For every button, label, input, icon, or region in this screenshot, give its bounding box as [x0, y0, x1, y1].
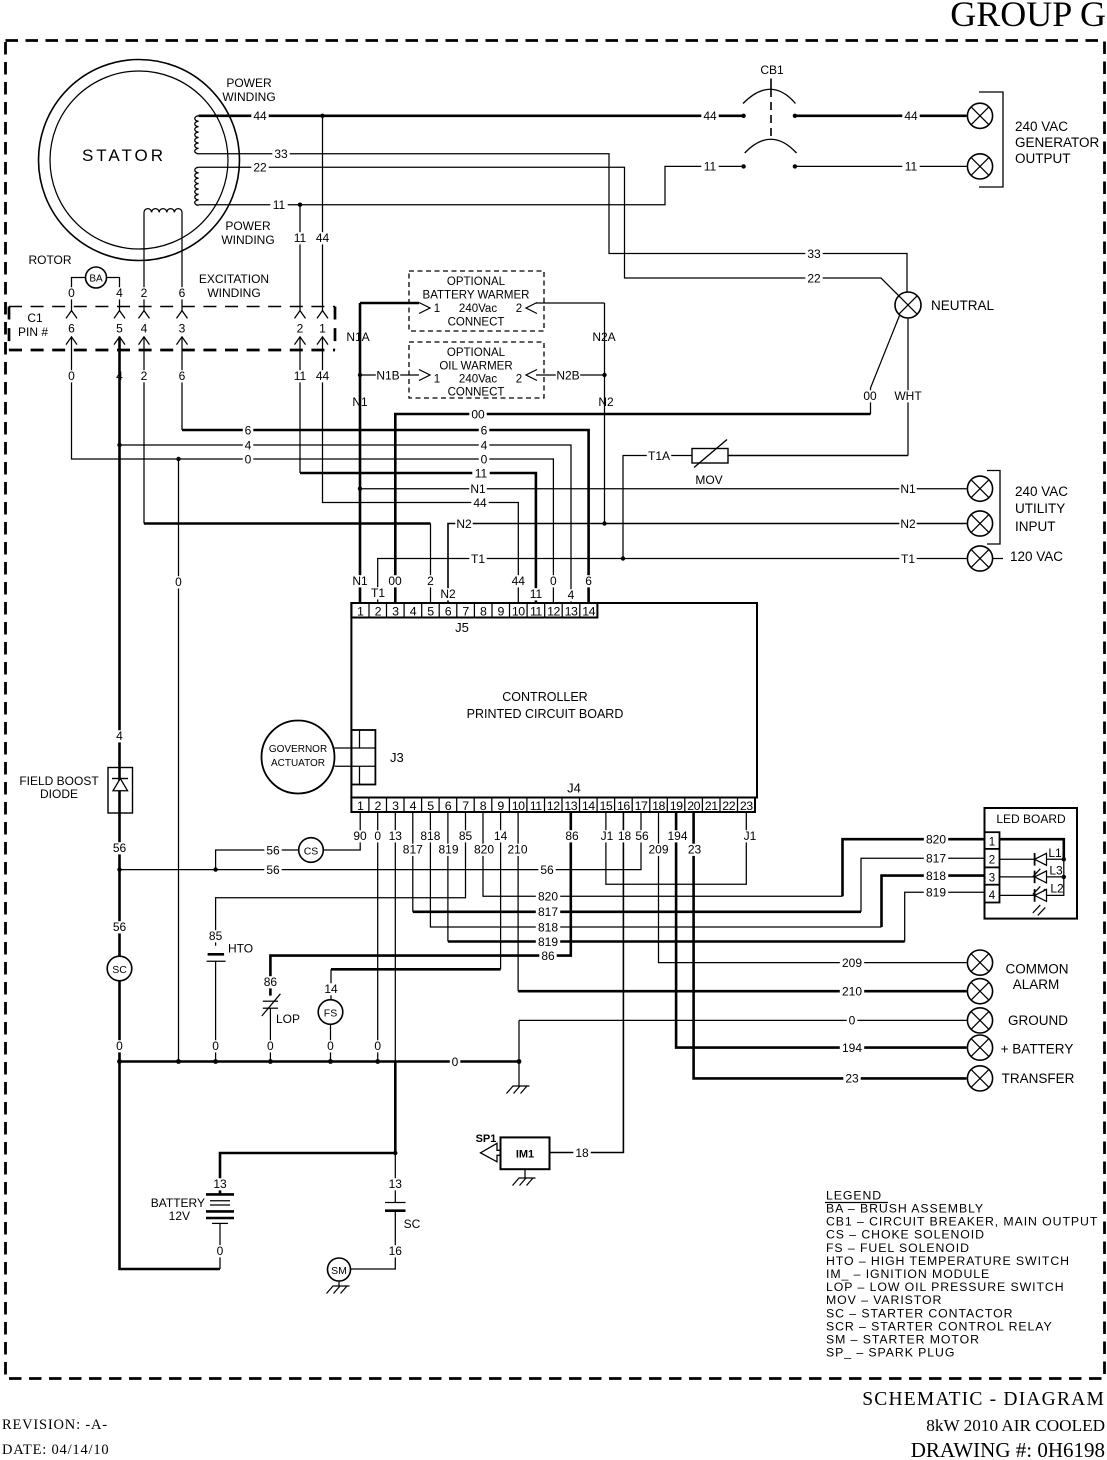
wire excitation right to C1 pin 3 — [181, 212, 183, 310]
svg-text:818: 818 — [538, 920, 558, 934]
svg-text:EXCITATION: EXCITATION — [199, 272, 269, 286]
varistor MOV — [692, 440, 728, 468]
svg-text:POWER: POWER — [225, 219, 271, 233]
wire 44 CB1 to generator output lamp — [795, 115, 967, 118]
label 4 above C1 pin 5 — [114, 287, 125, 299]
label 90 at J4 — [351, 830, 368, 842]
svg-text:210: 210 — [507, 843, 527, 857]
svg-text:12V: 12V — [169, 1209, 190, 1223]
wire 820 J4.8 to LED board pin 1 — [483, 812, 843, 896]
label 4 below C1 pin 5 — [114, 370, 125, 382]
svg-text:11: 11 — [273, 198, 286, 212]
wire 11 stator to CB1 — [199, 166, 744, 204]
svg-text:WINDING: WINDING — [207, 286, 260, 300]
svg-text:4: 4 — [410, 604, 417, 618]
terminal lamp 210 common alarm — [967, 979, 992, 1004]
svg-text:0: 0 — [452, 1055, 459, 1069]
label 33 — [805, 248, 822, 260]
svg-text:10: 10 — [512, 604, 525, 618]
svg-text:N1: N1 — [470, 482, 486, 496]
label N2 at J5 — [439, 588, 456, 600]
label T1 mid — [469, 553, 486, 565]
svg-text:DATE: 04/14/10: DATE: 04/14/10 — [2, 1442, 109, 1458]
field boost diode — [108, 768, 133, 814]
svg-text:11: 11 — [294, 369, 307, 383]
label 56 at J4 — [633, 830, 650, 842]
svg-text:BA – BRUSH ASSEMBLY: BA – BRUSH ASSEMBLY — [826, 1202, 984, 1216]
battery BATTERY 12V — [206, 1194, 234, 1223]
wire 00 neutral diagonal — [871, 316, 900, 415]
label 44 at J5 — [510, 575, 527, 587]
svg-text:14: 14 — [582, 604, 595, 618]
label 18 at J4 — [616, 830, 633, 842]
wire N1B to oil warmer — [360, 374, 419, 376]
svg-text:44: 44 — [703, 109, 717, 123]
svg-text:11: 11 — [530, 587, 543, 601]
svg-text:820: 820 — [538, 890, 558, 904]
wire 00 bus to J5 pin 3 — [395, 414, 870, 603]
label 0 below battery — [215, 1245, 226, 1257]
terminal lamp 0 ground — [967, 1008, 992, 1033]
CB1 pole1 terminal dots — [741, 114, 745, 118]
svg-text:56: 56 — [113, 920, 127, 934]
svg-text:8: 8 — [480, 799, 487, 813]
svg-text:N2: N2 — [456, 517, 472, 531]
wire battery negative 0 — [219, 1223, 221, 1269]
label 818 at LED board — [924, 870, 948, 882]
svg-text:44: 44 — [253, 109, 267, 123]
label 4 at J5 — [566, 589, 577, 601]
label 13 above battery — [211, 1178, 228, 1190]
label N1 — [351, 396, 368, 408]
svg-text:8: 8 — [480, 604, 487, 618]
svg-text:11: 11 — [905, 160, 918, 174]
svg-text:2: 2 — [427, 574, 434, 588]
svg-text:C1: C1 — [27, 311, 43, 325]
wire N1 to battery warmer — [360, 302, 419, 305]
svg-text:2: 2 — [516, 374, 522, 386]
label 33 near stator — [272, 148, 289, 160]
label 6 mid — [479, 425, 490, 437]
wire HTO to ground bus — [215, 961, 217, 1061]
svg-text:818: 818 — [926, 869, 946, 883]
power winding coil W1 (44-33) — [195, 116, 199, 154]
svg-text:22: 22 — [253, 161, 267, 175]
label 819 mid — [536, 936, 560, 948]
svg-text:6: 6 — [481, 423, 488, 437]
label 85 above HTO — [207, 930, 224, 942]
wire N1 vertical to J5 pin 1 — [359, 303, 362, 603]
wire excitation left to C1 pin 4 — [143, 212, 145, 310]
svg-text:13: 13 — [389, 829, 403, 843]
svg-text:0: 0 — [849, 1014, 856, 1028]
junction N2/N2B — [602, 373, 606, 377]
wire 209 J4.18 to common alarm lamp — [659, 812, 967, 963]
svg-text:21: 21 — [705, 799, 718, 813]
svg-text:13: 13 — [389, 1177, 403, 1191]
label 0 mid — [479, 454, 490, 466]
label 817 mid — [536, 906, 560, 918]
wire N1 bus to utility lamp — [360, 488, 967, 490]
svg-text:33: 33 — [274, 147, 288, 161]
svg-text:22: 22 — [722, 799, 735, 813]
svg-text:2: 2 — [989, 855, 995, 867]
svg-text:0: 0 — [68, 286, 75, 300]
svg-text:SP1: SP1 — [476, 1133, 497, 1145]
connector J5 — [351, 603, 597, 618]
svg-text:44: 44 — [904, 109, 918, 123]
svg-text:WINDING: WINDING — [221, 233, 274, 247]
spark plug SP1 arrow — [481, 1143, 501, 1162]
svg-text:0: 0 — [327, 1039, 334, 1053]
svg-text:1: 1 — [989, 837, 995, 849]
CB1 pole2 terminal dots — [741, 164, 745, 168]
svg-text:COMMON: COMMON — [1006, 962, 1069, 977]
svg-text:33: 33 — [807, 247, 821, 261]
label 6 below C1 pin 3 — [177, 370, 188, 382]
label 6 above C1 pin 3 — [177, 287, 188, 299]
svg-text:56: 56 — [266, 843, 280, 857]
svg-text:0: 0 — [481, 452, 488, 466]
label 194 — [840, 1042, 864, 1054]
ignition module IM1 — [501, 1137, 550, 1169]
svg-text:BA: BA — [89, 274, 103, 285]
terminal lamp 23 transfer — [967, 1066, 992, 1091]
svg-text:N2B: N2B — [556, 368, 579, 382]
optional battery warmer box — [409, 271, 544, 331]
svg-text:6: 6 — [245, 423, 252, 437]
wire ground bus 0 — [120, 1060, 520, 1063]
label 0 above ground bus at FS — [325, 1040, 336, 1052]
ground bus junction LOP — [268, 1059, 273, 1064]
wire left rail C1 pin5 to battery bottom — [120, 337, 221, 1269]
label 819 at J4 — [436, 844, 460, 856]
wire 11 drop to C1 pin 2 — [299, 205, 301, 311]
connector C1 dashed box — [9, 307, 335, 351]
svg-text:15: 15 — [600, 799, 613, 813]
svg-text:5: 5 — [427, 799, 434, 813]
junction anode rail L3 — [1062, 875, 1066, 879]
terminal lamp 44 generator output — [967, 103, 992, 128]
svg-text:4: 4 — [116, 729, 123, 743]
label 819 at LED board — [924, 887, 948, 899]
svg-text:4: 4 — [410, 799, 417, 813]
svg-text:6: 6 — [585, 574, 592, 588]
wire 44 stator to CB1 — [199, 115, 744, 118]
svg-text:0: 0 — [245, 452, 252, 466]
wire 44 bus to J5 pin 10 — [323, 337, 519, 603]
svg-text:11: 11 — [704, 160, 717, 174]
C1 pin 6 (wire 0) arrows and number — [66, 311, 77, 319]
svg-text:11: 11 — [530, 799, 542, 813]
svg-text:REVISION: -A-: REVISION: -A- — [2, 1417, 108, 1433]
label 00 below neutral — [861, 390, 878, 402]
svg-text:3: 3 — [392, 799, 399, 813]
LED L3 — [1000, 876, 1035, 878]
svg-text:90: 90 — [353, 829, 367, 843]
label 14 at J4 — [492, 830, 509, 842]
svg-text:SCR – STARTER CONTROL RELA: SCR – STARTER CONTROL RELAY — [826, 1319, 1053, 1333]
label 6 at J5 — [583, 575, 594, 587]
svg-text:1: 1 — [319, 322, 326, 336]
svg-text:817: 817 — [403, 843, 423, 857]
svg-text:209: 209 — [842, 956, 862, 970]
svg-text:819: 819 — [438, 843, 458, 857]
label T1 right — [899, 553, 916, 565]
svg-text:1: 1 — [357, 799, 364, 813]
svg-text:6: 6 — [445, 799, 452, 813]
label N2 — [597, 396, 614, 408]
svg-text:5: 5 — [116, 322, 123, 336]
label 11 at CB1 — [701, 161, 718, 173]
label 0 at J5 — [548, 575, 559, 587]
label 4 mid — [479, 440, 490, 452]
wire 4 bus to J5 pin 13 — [120, 445, 572, 603]
ground bus junction FS — [328, 1059, 333, 1064]
svg-text:817: 817 — [538, 905, 558, 919]
stator inner circle — [50, 71, 228, 249]
wire 18 J4.16 to IM1 — [550, 812, 624, 1153]
svg-text:N2: N2 — [900, 517, 916, 531]
label 00 on bus — [469, 409, 486, 421]
label 14 above FS — [322, 983, 339, 995]
label J1 at J4 — [598, 830, 615, 842]
ground bus junction left rail — [117, 1059, 122, 1064]
svg-text:0: 0 — [217, 1244, 224, 1258]
svg-text:00: 00 — [863, 389, 877, 403]
wire 0 rail — [178, 459, 180, 1062]
label 0 above C1 pin 6 — [66, 287, 77, 299]
junction N1/N1B — [358, 373, 362, 377]
svg-text:TRANSFER: TRANSFER — [1002, 1071, 1075, 1086]
svg-text:FS – FUEL SOLENOID: FS – FUEL SOLENOID — [826, 1241, 970, 1255]
svg-text:13: 13 — [564, 799, 577, 813]
svg-text:SC: SC — [112, 964, 127, 976]
svg-text:820: 820 — [474, 843, 494, 857]
label 6 left — [243, 425, 254, 437]
label 0 on ground bus — [450, 1056, 461, 1068]
label 11 above C1 pin 2 — [291, 232, 308, 244]
wire N2 bus to utility lamp — [448, 524, 967, 604]
svg-text:44: 44 — [512, 574, 526, 588]
svg-text:240 VAC: 240 VAC — [1015, 484, 1068, 499]
label 23 at J4 — [686, 844, 703, 856]
svg-text:23: 23 — [740, 799, 753, 813]
svg-text:OPTIONAL: OPTIONAL — [447, 347, 506, 359]
stator outer circle — [39, 60, 240, 261]
svg-text:SM – STARTER MOTOR: SM – STARTER MOTOR — [826, 1333, 980, 1347]
svg-text:240Vac: 240Vac — [459, 303, 497, 315]
label 44 at generator output — [902, 110, 919, 122]
power winding coil W2 (22-11) — [195, 167, 199, 205]
svg-text:4: 4 — [141, 322, 148, 336]
wire 818 J4.5 to LED board pin 3 — [430, 812, 881, 927]
svg-text:86: 86 — [541, 949, 555, 963]
svg-text:BATTERY WARMER: BATTERY WARMER — [423, 290, 530, 302]
svg-text:8kW 2010 AIR COOLED: 8kW 2010 AIR COOLED — [926, 1416, 1105, 1435]
controller printed circuit board box — [351, 603, 757, 798]
label 11 at generator output — [902, 161, 919, 173]
svg-text:11: 11 — [530, 604, 542, 618]
svg-text:1: 1 — [357, 604, 364, 618]
starter contactor SC coil — [107, 956, 132, 981]
label 820 mid — [536, 891, 560, 903]
generator output bracket — [979, 92, 1003, 187]
wire T1 bus to 120VAC lamp — [378, 559, 967, 604]
svg-text:CB1: CB1 — [760, 63, 784, 77]
oil warmer pin1 arrow — [419, 370, 430, 381]
svg-text:FS: FS — [324, 1007, 337, 1019]
svg-text:J1: J1 — [744, 829, 757, 843]
svg-text:L1: L1 — [1048, 846, 1062, 860]
starter contactor SC contacts — [385, 1203, 406, 1211]
svg-text:N2: N2 — [598, 395, 614, 409]
label 44 mid — [471, 497, 488, 509]
excitation winding coil — [144, 209, 182, 213]
battery warmer pin2 arrow — [526, 303, 537, 314]
svg-text:240 VAC: 240 VAC — [1015, 119, 1068, 134]
wire J1 jumper J4.15 to J4.23 — [606, 812, 746, 884]
svg-text:GROUND: GROUND — [1008, 1013, 1068, 1028]
svg-text:DIODE: DIODE — [40, 787, 78, 801]
junction T1/T1A — [621, 556, 625, 560]
svg-text:DRAWING #: 0H6198: DRAWING #: 0H6198 — [911, 1438, 1105, 1460]
LED L2 — [1000, 894, 1035, 896]
svg-text:209: 209 — [648, 843, 668, 857]
svg-text:44: 44 — [473, 496, 487, 510]
wire WHT neutral to MOV line — [907, 318, 909, 456]
svg-text:6: 6 — [179, 369, 186, 383]
wire 90 J4.1 to CS — [324, 812, 361, 850]
svg-text:00: 00 — [388, 574, 402, 588]
svg-text:819: 819 — [926, 886, 946, 900]
svg-text:1: 1 — [434, 303, 440, 315]
ground bus junction 0 rail — [176, 1059, 181, 1064]
label 22 — [805, 273, 822, 285]
svg-text:T1: T1 — [901, 552, 915, 566]
LED L1 — [1000, 858, 1035, 860]
svg-text:4: 4 — [245, 438, 252, 452]
svg-text:L3: L3 — [1049, 864, 1063, 878]
svg-text:N1A: N1A — [346, 330, 369, 344]
connector J3 — [335, 730, 376, 785]
svg-text:0: 0 — [68, 369, 75, 383]
svg-text:MOV: MOV — [695, 473, 722, 487]
junction N2 bus / N2A — [602, 521, 606, 525]
svg-text:ROTOR: ROTOR — [28, 253, 71, 267]
wire 23 J4.20 to transfer lamp — [694, 812, 967, 1078]
svg-text:194: 194 — [667, 829, 687, 843]
label 18 — [573, 1147, 590, 1159]
junction 56 bus / left rail — [117, 867, 121, 871]
label N1 right — [899, 483, 916, 495]
wire LOP to ground bus — [269, 1008, 271, 1061]
label 11 near stator — [270, 199, 287, 211]
svg-text:18: 18 — [618, 829, 632, 843]
svg-text:56: 56 — [635, 829, 649, 843]
svg-text:CS – CHOKE SOLENOID: CS – CHOKE SOLENOID — [826, 1228, 985, 1242]
svg-text:T1A: T1A — [648, 449, 670, 463]
label J1 at J4 — [741, 830, 758, 842]
svg-text:CB1 – CIRCUIT BREAKER, MAI: CB1 – CIRCUIT BREAKER, MAIN OUTPUT — [826, 1215, 1098, 1229]
svg-text:11: 11 — [475, 466, 488, 480]
junction N1 bus — [358, 487, 362, 491]
svg-text:19: 19 — [670, 799, 683, 813]
label 85 at J4 — [457, 830, 474, 842]
terminal lamp N2 utility — [967, 511, 992, 536]
wire 210 J4.10 to common alarm lamp — [517, 812, 519, 991]
junction 0 bus / 0 rail — [176, 457, 180, 461]
svg-text:LEGEND: LEGEND — [826, 1189, 882, 1203]
svg-text:GOVERNOR: GOVERNOR — [269, 744, 327, 755]
svg-text:T1: T1 — [471, 552, 485, 566]
label 13 at J4 — [387, 830, 404, 842]
wire battery warmer pin2 to N2A — [536, 302, 605, 304]
svg-text:820: 820 — [926, 833, 946, 847]
wire 819 J4.6 to LED board pin 4 — [447, 812, 449, 942]
svg-text:210: 210 — [842, 985, 862, 999]
svg-text:240Vac: 240Vac — [459, 374, 497, 386]
wire N2A vertical to N2 bus — [604, 303, 606, 524]
ground bus junction ground stub — [517, 1059, 522, 1064]
fuel solenoid FS — [318, 1000, 343, 1025]
svg-text:13: 13 — [213, 1177, 227, 1191]
svg-text:12: 12 — [547, 604, 560, 618]
svg-text:9: 9 — [497, 799, 504, 813]
svg-text:5: 5 — [427, 604, 434, 618]
label WHT — [896, 390, 920, 402]
terminal lamp N1 utility — [967, 476, 992, 501]
svg-text:N1: N1 — [900, 482, 916, 496]
battery warmer pin1 arrow — [419, 303, 430, 314]
label 44 at CB1 — [701, 110, 718, 122]
svg-text:J3: J3 — [390, 750, 404, 765]
C1 pin 2 (wire 11) arrows and number — [295, 311, 306, 319]
svg-text:4: 4 — [989, 890, 996, 902]
wire FS to ground bus — [330, 1024, 332, 1061]
svg-text:20: 20 — [687, 799, 700, 813]
wire 0 ground lamp line — [519, 1020, 967, 1061]
label 2 above C1 pin 4 — [139, 287, 150, 299]
svg-text:0: 0 — [267, 1039, 274, 1053]
label 210 at J4 — [505, 844, 529, 856]
junction 13 node — [393, 1151, 397, 1155]
svg-text:14: 14 — [582, 799, 595, 813]
svg-text:J5: J5 — [455, 620, 469, 635]
label N1 mid — [469, 483, 486, 495]
label 820 at LED board — [924, 834, 948, 846]
svg-text:T1: T1 — [371, 586, 385, 600]
wire 0 bus to J5 pin 12 — [72, 337, 554, 603]
optional oil warmer box — [409, 342, 544, 398]
terminal lamp 11 generator output — [967, 154, 992, 179]
label 818 mid — [536, 922, 560, 934]
wire 86 J4.13 to LOP — [270, 812, 570, 996]
svg-text:3: 3 — [179, 322, 186, 336]
svg-text:L2: L2 — [1050, 882, 1064, 896]
wire 13 J4.3 to battery node — [394, 812, 396, 1062]
svg-text:2: 2 — [375, 604, 382, 618]
svg-text:UTILITY: UTILITY — [1015, 501, 1065, 516]
label 56 left of CS — [264, 845, 281, 857]
wire 817 J4.4 to LED board pin 2 — [412, 812, 414, 912]
svg-text:4: 4 — [116, 286, 123, 300]
svg-text:6: 6 — [179, 286, 186, 300]
label 44 above C1 pin 1 — [314, 232, 331, 244]
starter motor SM — [328, 1258, 351, 1281]
C1 pin 1 (wire 44) arrows and number — [317, 311, 328, 319]
svg-text:120 VAC: 120 VAC — [1010, 549, 1063, 564]
